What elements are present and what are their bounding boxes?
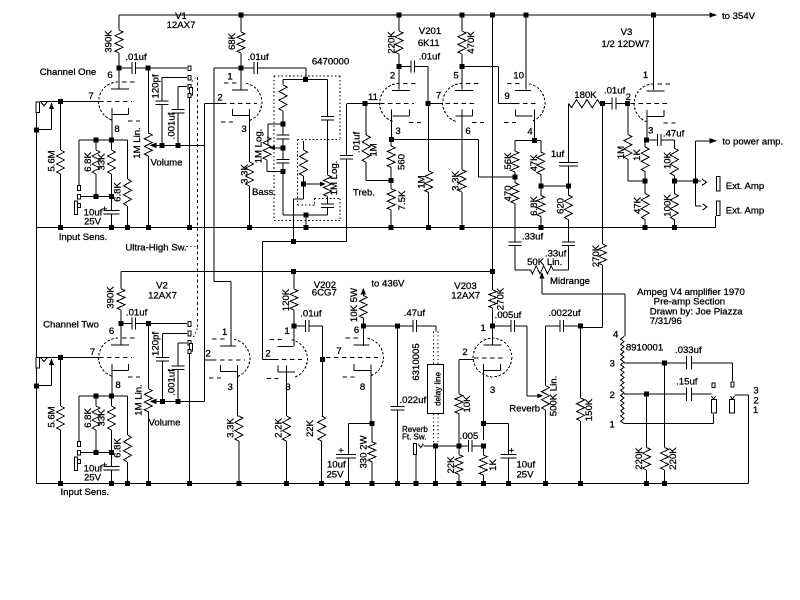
wire V2a plate lead — [120, 324, 122, 345]
resistor 6.8K lower input ch2 — [113, 396, 132, 484]
svg-text:3: 3 — [610, 359, 615, 370]
svg-text:.47uf: .47uf — [404, 308, 426, 319]
capacitor .022uf — [391, 326, 427, 483]
resistor 33K input — [97, 140, 116, 196]
node 330 ground — [370, 481, 375, 486]
tube V202b triode — [343, 338, 384, 377]
node V202b grid — [320, 357, 325, 362]
pin 6 V1a — [107, 70, 112, 81]
svg-text:3.3K: 3.3K — [226, 418, 237, 438]
wire left ground drop — [36, 112, 38, 483]
svg-text:1: 1 — [227, 72, 232, 83]
label Midrange — [550, 276, 590, 287]
svg-text:1: 1 — [753, 405, 758, 416]
wire sens pad feed — [78, 140, 80, 186]
resistor 33K input ch2 — [97, 396, 116, 452]
svg-text:3: 3 — [228, 382, 233, 393]
wire V201a cathode lead — [391, 110, 393, 140]
wire bus right end — [715, 216, 717, 228]
node 6.8K ground — [125, 225, 130, 230]
svg-text:9: 9 — [504, 91, 509, 102]
label V202 6CG7 — [312, 280, 337, 299]
resistor 3.3K V2b — [226, 416, 243, 484]
svg-text:1: 1 — [643, 70, 648, 81]
node 500K ground — [543, 481, 548, 486]
capacitor 1uf — [551, 104, 578, 186]
node V201b plate — [460, 64, 465, 69]
node V201a plate — [397, 64, 402, 69]
capacitor .033uf — [675, 345, 732, 370]
node 1uf bottom — [566, 184, 571, 189]
label Input Sens. — [59, 232, 108, 243]
pin 6 V202b — [354, 325, 359, 336]
node reverb return — [456, 443, 461, 448]
svg-text:3: 3 — [490, 385, 495, 396]
svg-text:6K11: 6K11 — [418, 38, 440, 49]
resistor 390K plate V2a — [106, 271, 126, 323]
svg-text:6: 6 — [107, 70, 112, 81]
wire divider link — [541, 185, 569, 187]
wire ext amp upper — [696, 180, 702, 182]
svg-text:6: 6 — [109, 326, 114, 337]
capacitor .01uf coupling V1b — [241, 52, 306, 80]
resistor 470K plate V201b — [458, 15, 477, 66]
node rail junctions — [239, 13, 657, 18]
potentiometer 1M Lin volume ch2 — [134, 324, 153, 484]
label V203 12AX7 — [451, 281, 480, 302]
node delay out — [433, 443, 438, 448]
potentiometer 500K Lin reverb — [542, 326, 560, 483]
svg-text:8: 8 — [360, 382, 365, 393]
wire V1b plate lead — [240, 68, 242, 90]
svg-text:220K: 220K — [634, 447, 645, 470]
svg-text:390K: 390K — [104, 30, 115, 53]
potentiometer 50K Lin midrange — [515, 257, 569, 274]
jack Channel Two input — [36, 358, 47, 369]
wire tap 1 — [610, 414, 714, 431]
svg-text:5: 5 — [453, 71, 458, 82]
label Volume ch1 — [151, 158, 183, 169]
svg-text:Ultra-High Sw.: Ultra-High Sw. — [125, 243, 186, 254]
wire V202b cathode lead — [370, 365, 372, 424]
resistor 22K reverb — [446, 446, 463, 484]
label Ext Amp 2 — [726, 206, 764, 217]
pin 2 V202a — [265, 349, 270, 360]
node volume ground ch2 — [146, 481, 151, 486]
label Ext Amp 1 — [726, 181, 764, 192]
label 8910001 — [626, 343, 663, 354]
svg-text:3: 3 — [648, 126, 653, 137]
node jack ground — [34, 127, 39, 132]
pin 3 V1b — [241, 124, 246, 135]
capacitor .001uf ch1 — [167, 87, 185, 146]
node volume ground — [146, 225, 151, 230]
svg-text:1: 1 — [222, 327, 227, 338]
wire V203 cathode lead — [482, 364, 484, 440]
resistor 6.8K input — [83, 140, 100, 196]
svg-text:2: 2 — [206, 349, 211, 360]
svg-text:.33uf: .33uf — [522, 232, 544, 243]
svg-text:7: 7 — [90, 347, 95, 358]
wire V1a cathode lead — [111, 108, 113, 140]
svg-text:+: + — [102, 204, 108, 215]
resistor 470 — [503, 177, 519, 242]
svg-text:68K: 68K — [227, 32, 238, 50]
wire tone stack input — [283, 77, 328, 82]
label 6470000 — [312, 57, 349, 68]
pin 3 V3 — [648, 126, 653, 137]
node V202b cathode — [369, 421, 374, 426]
switch ultra-high upper contacts — [188, 66, 192, 98]
node 1M ground — [426, 225, 431, 230]
tube V201a triode — [380, 84, 421, 123]
wire grid tie vertical — [204, 104, 206, 402]
svg-text:1M: 1M — [369, 143, 380, 156]
svg-text:22K: 22K — [305, 419, 316, 437]
pin 8 V2a — [115, 380, 120, 391]
label to 436V — [371, 279, 405, 290]
svg-text:4: 4 — [613, 330, 619, 341]
potentiometer 1M Log treble — [321, 161, 340, 215]
resistor 10K output — [663, 140, 679, 181]
svg-text:1uf: 1uf — [551, 149, 565, 160]
wire 120pf to switch ch2 — [163, 333, 188, 335]
svg-text:.01uf: .01uf — [300, 309, 322, 320]
svg-text:Bass.: Bass. — [252, 187, 276, 198]
svg-text:.0022uf: .0022uf — [548, 308, 580, 319]
switch input sens contacts — [75, 186, 81, 215]
node treble wiper — [301, 182, 306, 187]
wire jack2 ground — [735, 395, 749, 484]
node 56K bottom — [512, 175, 517, 180]
svg-text:220K: 220K — [387, 31, 398, 54]
node 150K ground — [578, 481, 583, 486]
resistor 47K V3 — [632, 181, 649, 227]
svg-text:Volume: Volume — [149, 418, 181, 429]
wire V201a cathode feedback — [392, 140, 515, 178]
resistor 2.2K V202a — [273, 416, 290, 484]
pin 2 V2b — [206, 349, 211, 360]
wire switch arm ground — [189, 98, 191, 228]
svg-text:6: 6 — [354, 325, 359, 336]
wire to power amp — [696, 136, 784, 181]
node 7.5K ground — [389, 225, 394, 230]
potentiometer 1M Log bass — [254, 129, 284, 172]
svg-text:2: 2 — [610, 390, 615, 401]
tube V2a triode — [99, 338, 140, 377]
svg-text:470: 470 — [503, 185, 514, 201]
svg-text:10: 10 — [513, 71, 524, 82]
wire volume wiper — [150, 143, 205, 149]
wire input sens bus ch2 — [79, 394, 128, 399]
wire V1a grid — [40, 101, 132, 103]
tube V3 triode — [634, 84, 675, 123]
wire tap 3 — [610, 359, 687, 370]
svg-text:Midrange: Midrange — [550, 276, 590, 287]
label Reverb — [509, 404, 540, 415]
tube V203 triode — [473, 338, 512, 377]
svg-text:1/2 12DW7: 1/2 12DW7 — [602, 39, 650, 50]
wire sens tap ch2 — [81, 450, 114, 455]
svg-text:12AX7: 12AX7 — [148, 291, 177, 302]
node V201c cathode — [532, 138, 537, 143]
wire tap 2 — [610, 390, 687, 401]
label jack pins 321 — [753, 386, 759, 417]
wire V1b grid — [205, 103, 258, 105]
svg-text:270K: 270K — [496, 287, 507, 310]
svg-text:Ext. Amp: Ext. Amp — [726, 181, 764, 192]
svg-text:6.8K: 6.8K — [113, 438, 124, 458]
wire grid leak hookup — [365, 103, 366, 105]
wire ultra-high dashed link — [192, 76, 198, 339]
jack Channel One input — [36, 102, 47, 113]
wire 120pf to switch — [162, 77, 187, 79]
wire tone stack bottom — [283, 172, 328, 218]
label Ultra-High Sw. — [125, 243, 197, 254]
svg-text:560: 560 — [397, 154, 408, 170]
svg-text:50K Lin.: 50K Lin. — [527, 257, 562, 268]
wire to ultra-high switch — [148, 67, 187, 69]
pin 11 V201a — [368, 92, 378, 103]
svg-text:.01uf: .01uf — [126, 308, 148, 319]
svg-text:+: + — [509, 446, 515, 457]
svg-text:12AX7: 12AX7 — [451, 291, 480, 302]
svg-text:6.8K: 6.8K — [83, 408, 94, 428]
svg-text:.15uf: .15uf — [676, 377, 698, 388]
resistor 3.3K V201b — [451, 170, 467, 228]
node 220K left ground — [644, 481, 649, 486]
svg-text:500K Lin.: 500K Lin. — [549, 376, 560, 417]
node .022 junction — [395, 324, 400, 329]
svg-text:5.6M: 5.6M — [47, 150, 58, 171]
jack output 2 — [729, 382, 734, 413]
svg-text:to power amp.: to power amp. — [722, 136, 783, 147]
node V1b plate — [239, 66, 244, 71]
capacitor .47uf reverb drive — [363, 308, 436, 332]
wire V1b cathode lead — [249, 109, 251, 162]
wire V2b plate tie — [214, 282, 231, 347]
resistor 10K V203 grid — [455, 360, 473, 446]
resistor 56K — [503, 141, 519, 177]
capacitor bass lower — [277, 148, 290, 172]
wire midrange wiper — [539, 272, 625, 337]
svg-text:100K: 100K — [662, 194, 673, 217]
svg-text:8: 8 — [114, 124, 119, 135]
resistor 22K V202b grid — [305, 359, 326, 483]
svg-text:11: 11 — [368, 92, 378, 103]
pin 1 V1b — [227, 72, 232, 83]
svg-text:1: 1 — [610, 420, 615, 431]
svg-text:.005: .005 — [460, 431, 479, 442]
wire V201b grid dashes — [428, 91, 477, 104]
svg-text:+: + — [338, 446, 344, 457]
resistor 7.5K — [387, 181, 408, 228]
pin 3 V201a — [395, 126, 400, 137]
wire V202a plate lead — [293, 326, 295, 346]
svg-text:4: 4 — [527, 127, 533, 138]
wire .001uf to switch ch2 — [178, 342, 187, 344]
wire V2b cathode lead — [237, 365, 239, 416]
wire V201b cathode lead — [461, 110, 463, 170]
tube V201b triode — [443, 84, 484, 123]
switch input sens contacts ch2 — [75, 442, 81, 471]
wire cathode split — [515, 140, 541, 142]
node grid 5.6M junction — [58, 99, 63, 104]
node V201b grid — [426, 101, 431, 106]
capacitor .0022uf — [546, 308, 581, 332]
node 5.6M ground ch2 — [58, 481, 63, 486]
svg-text:1M: 1M — [417, 175, 428, 188]
capacitor .01uf V201 interstage — [399, 52, 440, 104]
capacitor 10uf 25V ch1 — [84, 197, 120, 228]
capacitor 120pf ch1 — [151, 74, 169, 145]
wire sens pad feed ch2 — [78, 396, 80, 442]
resistor 270K plate V203 — [489, 271, 507, 326]
resistor 1M V3 grid leak — [616, 104, 645, 182]
svg-text:33K: 33K — [97, 409, 108, 427]
node tap2 220K — [644, 392, 649, 397]
svg-text:6CG7: 6CG7 — [312, 288, 337, 299]
node grid 5.6M junction ch2 — [58, 355, 63, 360]
capacitor .01uf treble — [340, 104, 362, 242]
svg-text:25V: 25V — [516, 470, 534, 481]
wire reverb return — [423, 445, 459, 447]
wire upper ground bus — [37, 227, 716, 229]
wire V2a cathode lead — [111, 364, 113, 396]
label Treb. — [353, 188, 375, 199]
wire V3 grid dashes — [626, 92, 668, 104]
svg-text:3.3K: 3.3K — [451, 171, 462, 191]
svg-text:Ft. Sw.: Ft. Sw. — [402, 432, 426, 441]
node 180K right — [600, 101, 605, 106]
svg-text:.001uf: .001uf — [167, 112, 178, 139]
capacitor .01uf V202 interstage — [294, 309, 322, 360]
svg-text:Treb.: Treb. — [353, 188, 375, 199]
box delay line — [428, 365, 444, 414]
wire lower ground bus — [37, 483, 749, 485]
resistor 220K right — [661, 363, 680, 484]
resistor 1M V201b grid leak — [417, 104, 433, 228]
svg-text:1K: 1K — [632, 149, 643, 161]
capacitor 10uf V202b — [326, 424, 371, 484]
svg-text:2: 2 — [217, 93, 222, 104]
svg-text:22K: 22K — [446, 456, 457, 474]
node 3.3K V201b ground — [460, 225, 465, 230]
label V2 12AX7 — [148, 281, 177, 302]
resistor 150K — [577, 326, 595, 483]
pin 3 V2b — [228, 382, 233, 393]
node switch arm ground ch2 — [187, 481, 192, 486]
svg-text:.001uf: .001uf — [167, 369, 178, 396]
pin 7 V1a — [88, 91, 93, 102]
switch ultra-high lower contacts — [188, 322, 192, 354]
capacitor 10uf V203 — [483, 423, 535, 483]
svg-text:3: 3 — [241, 124, 246, 135]
jack reverb footswitch — [413, 443, 423, 483]
node 47K bottom — [538, 184, 543, 189]
node V2a plate — [119, 321, 124, 326]
tube V1a triode — [99, 82, 140, 121]
node 560 bottom — [389, 178, 394, 183]
capacitor .01uf coupling V1a — [119, 52, 148, 74]
wire stack ground drop — [305, 215, 307, 228]
wire V201b to V201c grid — [462, 66, 539, 103]
svg-text:2: 2 — [265, 349, 270, 360]
capacitor .33uf left — [508, 232, 543, 270]
node V203 cathode tap — [481, 421, 486, 426]
node V1a plate — [117, 66, 122, 71]
node lower rail junctions — [291, 269, 495, 274]
tube V2b triode — [209, 339, 250, 378]
node V3 cathode — [644, 138, 649, 143]
svg-text:Channel Two: Channel Two — [43, 320, 99, 331]
svg-text:12AX7: 12AX7 — [167, 20, 196, 31]
resistor 1M V201a grid — [362, 104, 391, 181]
svg-text:56K: 56K — [503, 152, 514, 170]
node bass top — [281, 122, 286, 127]
label Input Sens. ch2 — [61, 487, 110, 498]
node 6.8K ground ch2 — [125, 481, 130, 486]
svg-text:120pf: 120pf — [151, 332, 162, 356]
node 22K reverb ground — [456, 481, 461, 486]
svg-text:.01uf: .01uf — [352, 131, 363, 153]
resistor 220K plate V201a — [387, 15, 404, 66]
svg-text:.01uf: .01uf — [247, 52, 269, 63]
resistor 68K plate V1b — [227, 15, 245, 68]
capacitor .33uf right — [545, 242, 575, 270]
svg-text:Input Sens.: Input Sens. — [61, 487, 110, 498]
wire lower supply rail — [121, 270, 493, 272]
resistor 47K divider — [529, 141, 545, 187]
resistor 120K plate V202a — [281, 271, 298, 326]
jack output 1 — [711, 383, 716, 413]
wire switch arm ground ch2 — [189, 354, 191, 484]
node bass bottom — [281, 169, 286, 174]
node V201a cathode — [389, 137, 394, 142]
node 10uf V203 ground — [506, 481, 511, 486]
potentiometer 1M Lin volume ch1 — [132, 68, 152, 228]
svg-text:3.3K: 3.3K — [240, 164, 251, 184]
svg-text:47K: 47K — [529, 154, 540, 172]
pin 1 V2b — [222, 327, 227, 338]
label V3 12DW7 — [602, 27, 650, 50]
wire treble wiper — [304, 182, 326, 187]
capacitor bass upper — [277, 124, 290, 148]
svg-text:.022uf: .022uf — [399, 395, 426, 406]
node 220K right ground — [662, 481, 667, 486]
svg-text:1M Lin.: 1M Lin. — [134, 384, 145, 415]
svg-text:.033uf: .033uf — [675, 345, 702, 356]
svg-text:620: 620 — [556, 198, 567, 214]
svg-text:10K: 10K — [462, 395, 473, 413]
svg-text:8910001: 8910001 — [626, 343, 663, 354]
resistor 6.8K input ch2 — [83, 396, 100, 452]
wire input sens bus — [79, 138, 128, 143]
resistor 560 — [387, 140, 407, 181]
capacitor .001uf ch2 — [167, 343, 185, 402]
tube V202a triode — [267, 340, 308, 379]
svg-text:150K: 150K — [584, 398, 595, 421]
resistor 5.6M — [47, 102, 65, 228]
svg-text:Channel One: Channel One — [40, 67, 97, 78]
svg-text:.47uf: .47uf — [663, 129, 685, 140]
svg-text:7: 7 — [336, 346, 341, 357]
wire treble out bus — [263, 239, 347, 244]
svg-text:Reverb: Reverb — [509, 404, 540, 415]
wire V3 cathode lead — [646, 110, 648, 140]
wire V3 plate lead — [643, 15, 654, 90]
svg-text:25V: 25V — [84, 217, 102, 228]
